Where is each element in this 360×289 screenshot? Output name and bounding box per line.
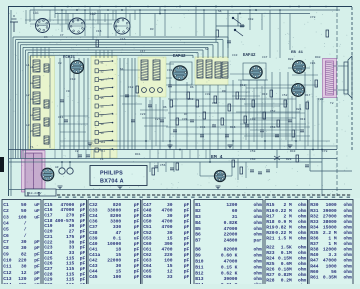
svg-text:C2: C2 [75, 150, 79, 153]
svg-text:R20: R20 [266, 230, 275, 236]
wire HT down right [321, 98, 323, 196]
svg-text:22000: 22000 [107, 258, 121, 264]
svg-text:12: 12 [21, 270, 27, 276]
svg-text:C52: C52 [270, 110, 276, 113]
svg-text:ohm: ohm [344, 219, 353, 225]
svg-text:ohm: ohm [298, 213, 307, 219]
svg-text:C8: C8 [58, 62, 62, 65]
resistor R18 [252, 100, 255, 107]
svg-text:pF: pF [134, 252, 140, 258]
capacitor C58 [86, 155, 90, 157]
table column 6 box [265, 200, 308, 289]
svg-text:pF: pF [184, 246, 190, 252]
svg-text:EAF42: EAF42 [243, 54, 256, 58]
svg-text:27000: 27000 [323, 213, 337, 219]
svg-text:C64: C64 [143, 263, 152, 269]
wire right dashed border [351, 7, 353, 150]
svg-text:S4: S4 [101, 88, 105, 91]
wire bundle right of L2 [119, 58, 121, 150]
svg-text:1200: 1200 [226, 202, 237, 208]
svg-text:R15: R15 [266, 202, 275, 208]
svg-text:R13: R13 [262, 93, 268, 96]
svg-text:pF: pF [134, 269, 140, 275]
wire verticals top zone [29, 10, 31, 22]
svg-text:ohm: ohm [298, 236, 307, 242]
svg-text:pF: pF [134, 241, 140, 247]
resistor R12 [203, 112, 206, 119]
table column 1 rows [3, 202, 40, 288]
svg-text:pF: pF [134, 202, 140, 208]
svg-text:pF: pF [134, 224, 140, 230]
svg-text:C36: C36 [89, 219, 98, 225]
svg-text:1.5 M: 1.5 M [278, 236, 292, 242]
svg-text:R35: R35 [310, 230, 319, 236]
svg-text:39000: 39000 [323, 208, 337, 214]
svg-text:R61: R61 [310, 274, 319, 280]
svg-text:C52: C52 [282, 94, 288, 97]
svg-text:C45: C45 [89, 274, 98, 280]
svg-text:C39: C39 [89, 235, 98, 241]
svg-text:R18: R18 [266, 219, 275, 225]
svg-text:270: 270 [66, 213, 75, 219]
label mains box [25, 189, 56, 196]
svg-text:a2: a2 [30, 82, 34, 85]
svg-text:R3: R3 [150, 28, 154, 31]
resistor R30 [315, 80, 318, 87]
lamp LA1 [36, 19, 50, 33]
svg-text:pF: pF [34, 239, 40, 245]
svg-text:ohm: ohm [344, 263, 353, 269]
resistor R11 [196, 100, 199, 107]
svg-text:C50: C50 [143, 219, 152, 225]
svg-text:C43: C43 [89, 263, 98, 269]
svg-text:pF: pF [34, 251, 40, 257]
wire bundle between L1 and L2 [59, 58, 61, 150]
svg-text:R26: R26 [266, 266, 275, 272]
svg-text:a5: a5 [30, 130, 34, 133]
svg-text:R25: R25 [266, 261, 275, 267]
svg-text:15000: 15000 [323, 224, 337, 230]
svg-text:4700: 4700 [162, 208, 173, 214]
svg-text:47000: 47000 [323, 258, 337, 264]
svg-text:10000: 10000 [107, 241, 121, 247]
svg-text:pF: pF [184, 263, 190, 269]
svg-text:T1: T1 [30, 146, 34, 149]
mains plug prongs [27, 192, 29, 196]
svg-text:0.62 K: 0.62 K [221, 270, 238, 276]
svg-text:ohm: ohm [254, 264, 263, 270]
svg-text:ohm: ohm [344, 202, 353, 208]
svg-text:pF: pF [184, 230, 190, 236]
svg-text:15: 15 [116, 252, 122, 258]
svg-text:pF: pF [80, 229, 86, 235]
capacitor C45 [288, 120, 292, 122]
svg-text:/: / [24, 233, 27, 239]
capacitor C60 [250, 170, 254, 172]
svg-text:ohm: ohm [298, 272, 307, 278]
capacitor C35 [200, 135, 204, 137]
svg-text:pF: pF [34, 270, 40, 276]
table column 6 rows [266, 202, 306, 289]
svg-text:pF: pF [134, 213, 140, 219]
svg-text:R16: R16 [266, 208, 275, 214]
svg-text:pF: pF [34, 276, 40, 282]
svg-text:S6: S6 [101, 106, 105, 109]
svg-text:C27: C27 [44, 266, 53, 272]
capacitor C8 [64, 120, 68, 122]
output transformer T2 winding [326, 61, 334, 95]
svg-text:R28: R28 [286, 158, 292, 161]
svg-text:ohm: ohm [298, 255, 307, 261]
svg-text:0.22 M: 0.22 M [275, 208, 292, 214]
svg-text:C32: C32 [89, 202, 98, 208]
svg-text:C7: C7 [3, 239, 9, 245]
svg-text:R19: R19 [266, 224, 275, 230]
svg-text:0.1M: 0.1M [281, 250, 292, 256]
svg-text:C23: C23 [140, 113, 146, 116]
wire upper h2 [30, 23, 112, 25]
svg-text:C44: C44 [89, 269, 98, 275]
tube U1 ECH21 [71, 61, 84, 74]
svg-text:pF: pF [184, 235, 190, 241]
svg-text:15: 15 [167, 235, 173, 241]
svg-text:ECH21: ECH21 [63, 56, 76, 60]
svg-text:C63: C63 [143, 258, 152, 264]
svg-text:0.82 M: 0.82 M [275, 224, 292, 230]
table column 2 box [43, 200, 87, 289]
svg-text:220: 220 [18, 258, 27, 264]
resistor R19 [263, 112, 266, 119]
svg-text:2.2 M: 2.2 M [323, 230, 337, 236]
svg-text:pF: pF [80, 245, 86, 251]
svg-text:S7: S7 [101, 114, 105, 117]
coil L1a [33, 60, 40, 72]
svg-text:C9: C9 [66, 90, 70, 93]
svg-text:0.60 K: 0.60 K [221, 253, 238, 259]
svg-text:pF: pF [80, 234, 86, 240]
svg-text:C8: C8 [3, 245, 9, 251]
svg-text:B11: B11 [195, 264, 204, 270]
svg-text:R33: R33 [310, 219, 319, 225]
svg-text:C18: C18 [128, 86, 134, 89]
IF transformer S1 highlight [138, 57, 166, 97]
electrolytic C1 C2 [59, 168, 65, 174]
svg-text:60: 60 [232, 208, 238, 214]
coil S1a IF primary [141, 60, 148, 80]
trimmer C25 [142, 88, 147, 93]
svg-text:R44: R44 [310, 263, 319, 269]
coil L1i trimmer [44, 136, 49, 144]
table column 4 rows [143, 202, 189, 280]
svg-text:a1: a1 [30, 66, 34, 69]
svg-text:100: 100 [113, 274, 122, 280]
resistor R29 [296, 155, 299, 162]
svg-text:L1: L1 [26, 64, 30, 67]
svg-text:B3: B3 [195, 214, 201, 220]
svg-text:C24: C24 [44, 250, 53, 256]
svg-text:C33: C33 [89, 208, 98, 214]
svg-text:100: 100 [164, 258, 173, 264]
svg-text:56: 56 [331, 269, 337, 275]
capacitor C33 [173, 130, 177, 132]
svg-text:pF: pF [184, 241, 190, 247]
svg-text:pF: pF [34, 258, 40, 264]
svg-text:0.82K: 0.82K [224, 220, 238, 226]
svg-text:pF: pF [134, 274, 140, 280]
svg-text:ohm: ohm [298, 266, 307, 272]
capacitor C48 [240, 25, 244, 27]
svg-text:ohm: ohm [344, 269, 353, 275]
resistor R10 [187, 92, 190, 99]
mains transformer T1 highlight [22, 151, 46, 193]
svg-text:0.82M: 0.82M [278, 272, 292, 278]
svg-text:820: 820 [113, 202, 122, 208]
table column 5 box [194, 200, 263, 289]
svg-text:B1: B1 [195, 202, 201, 208]
coil assembly L1 highlight (aerial coils) [29, 56, 55, 149]
coil S2a IF primary [197, 60, 203, 78]
wire verticals upper zone [25, 10, 27, 24]
svg-text:C17: C17 [44, 213, 53, 219]
svg-text:4700: 4700 [162, 246, 173, 252]
svg-text:12: 12 [167, 269, 173, 275]
svg-text:30: 30 [167, 202, 173, 208]
tube socket view ECH21 [114, 18, 130, 34]
svg-text:C22: C22 [44, 239, 53, 245]
svg-text:R9: R9 [222, 90, 226, 93]
svg-text:pF: pF [184, 219, 190, 225]
svg-text:1 M: 1 M [328, 236, 337, 242]
svg-text:pF: pF [184, 252, 190, 258]
resistor R28 [152, 168, 155, 175]
right bottom jack [276, 150, 278, 168]
svg-text:C37: C37 [89, 224, 98, 230]
resistor R1 [96, 40, 99, 47]
lamp LA2 [69, 18, 85, 34]
svg-text:12000: 12000 [323, 247, 337, 253]
svg-text:ohm: ohm [298, 208, 307, 214]
IF transformer S2 highlight [195, 57, 228, 85]
svg-text:R30: R30 [310, 202, 319, 208]
svg-text:47000: 47000 [224, 226, 238, 232]
svg-text:R34: R34 [310, 224, 319, 230]
svg-text:15: 15 [167, 263, 173, 269]
svg-text:B12: B12 [195, 270, 204, 276]
wire left border [8, 7, 10, 197]
tube U7 AZ41 rectifier [41, 168, 54, 181]
svg-text:115: 115 [66, 266, 75, 272]
table column 2 rows [44, 202, 85, 288]
capacitor C46 [300, 130, 304, 132]
svg-text:R17: R17 [266, 213, 275, 219]
svg-text:C56: C56 [160, 164, 166, 167]
svg-text:R38: R38 [310, 247, 319, 253]
tube U5 EL41 [292, 84, 305, 97]
svg-text:R27: R27 [266, 272, 275, 278]
svg-text:ohm: ohm [298, 224, 307, 230]
svg-text:L3: L3 [26, 124, 30, 127]
svg-text:ohm: ohm [254, 247, 263, 253]
svg-text:R16: R16 [230, 126, 236, 129]
svg-text:30: 30 [69, 239, 75, 245]
svg-text:B5: B5 [195, 226, 201, 232]
svg-text:C10: C10 [3, 258, 12, 264]
svg-text:ohm: ohm [344, 274, 353, 280]
svg-text:pF: pF [184, 208, 190, 214]
coil S2b IF secondary [206, 60, 212, 78]
capacitor C43 [260, 130, 264, 132]
table column 4 box [142, 200, 191, 289]
svg-text:ohm: ohm [254, 232, 263, 238]
svg-text:R41: R41 [135, 153, 141, 156]
svg-text:C38: C38 [205, 93, 211, 96]
svg-text:EAF42: EAF42 [173, 55, 186, 59]
svg-text:27: 27 [69, 229, 75, 235]
svg-text:47000: 47000 [61, 202, 75, 208]
svg-text:C21: C21 [44, 234, 53, 240]
svg-text:C18: C18 [44, 218, 53, 224]
trimmer C26 [150, 88, 155, 93]
svg-text:pF: pF [184, 274, 190, 280]
svg-text:3300: 3300 [110, 219, 121, 225]
svg-text:50: 50 [21, 202, 27, 208]
wire box around U3 [243, 63, 266, 80]
svg-text:C23: C23 [44, 245, 53, 251]
wire heater bus 1 [8, 158, 337, 160]
svg-text:pF: pF [80, 266, 86, 272]
svg-text:/: / [24, 227, 27, 233]
capacitor C7 [60, 100, 64, 102]
svg-text:30: 30 [21, 264, 27, 270]
svg-text:C15: C15 [44, 202, 53, 208]
coil S2d [222, 62, 228, 78]
svg-text:C39: C39 [182, 118, 188, 121]
svg-text:S9: S9 [101, 132, 105, 135]
svg-text:0.35M: 0.35M [323, 274, 337, 280]
svg-text:R60: R60 [310, 269, 319, 275]
EM4 wiring [199, 162, 201, 176]
svg-text:115: 115 [66, 277, 75, 283]
svg-text:C9: C9 [3, 251, 9, 257]
svg-text:22000: 22000 [224, 232, 238, 238]
svg-text:30: 30 [21, 245, 27, 251]
svg-text:1 M: 1 M [328, 241, 337, 247]
svg-text:pF: pF [184, 269, 190, 275]
resistor R21 [277, 120, 280, 127]
svg-text:C20: C20 [44, 229, 53, 235]
svg-text:C49: C49 [143, 213, 152, 219]
wire bundle left verticals [12, 150, 14, 159]
svg-text:30: 30 [167, 213, 173, 219]
svg-text:C16: C16 [120, 38, 126, 41]
wire divider [8, 149, 337, 151]
resistor R24 [306, 102, 309, 109]
svg-text:ohm: ohm [344, 258, 353, 264]
svg-text:0.18M: 0.18M [278, 266, 292, 272]
svg-text:C66: C66 [143, 274, 152, 280]
resistor R13 [214, 96, 217, 103]
svg-text:B9: B9 [195, 253, 201, 259]
svg-text:R43: R43 [290, 150, 296, 153]
wire T2 to speaker 2 [334, 89, 349, 91]
svg-text:30: 30 [69, 223, 75, 229]
svg-text:/: / [24, 221, 27, 227]
svg-text:a4: a4 [30, 114, 34, 117]
svg-text:C25: C25 [44, 255, 53, 261]
antenna symbol [13, 22, 15, 32]
svg-text:pF: pF [184, 213, 190, 219]
coil assembly L2 highlight (oscillator coils) [91, 56, 117, 158]
svg-text:50: 50 [21, 208, 27, 214]
svg-text:33: 33 [69, 245, 75, 251]
svg-text:uF: uF [134, 235, 140, 241]
svg-text:par: par [254, 239, 263, 244]
svg-text:uF: uF [34, 214, 40, 220]
svg-text:C1: C1 [3, 202, 9, 208]
svg-text:S11: S11 [101, 150, 106, 153]
svg-text:B6: B6 [195, 232, 201, 238]
wire left border inner [10, 10, 12, 196]
wire box around U2 [170, 62, 192, 85]
svg-text:400-575: 400-575 [55, 218, 75, 224]
extra mid wires [230, 73, 260, 75]
resistor R42 [176, 163, 179, 170]
svg-text:120: 120 [18, 276, 27, 282]
svg-text:C41: C41 [89, 246, 98, 252]
scan speckle [9, 7, 352, 196]
svg-text:C29: C29 [44, 277, 53, 283]
svg-text:82: 82 [21, 251, 27, 257]
svg-text:ohm: ohm [344, 247, 353, 253]
svg-text:330: 330 [113, 224, 122, 230]
footer marks under schematic [58, 197, 61, 198]
svg-text:ohm: ohm [254, 253, 263, 259]
resistor R26 [232, 160, 235, 167]
coil L1c [33, 92, 40, 104]
svg-text:C47: C47 [262, 56, 268, 59]
svg-text:R6: R6 [190, 86, 194, 89]
svg-text:AZ: AZ [55, 166, 59, 169]
parts list table [0, 198, 360, 284]
svg-text:pF: pF [134, 219, 140, 225]
svg-text:1000: 1000 [326, 202, 337, 208]
tube U6 EM4 tuning eye [214, 170, 225, 181]
svg-text:L2: L2 [26, 94, 30, 97]
capacitor C61 [258, 172, 262, 174]
svg-text:C52: C52 [143, 230, 152, 236]
svg-text:C13: C13 [3, 276, 12, 282]
svg-text:S2: S2 [205, 48, 209, 51]
svg-text:R40: R40 [315, 56, 321, 59]
wire top bus [8, 6, 352, 8]
svg-text:0.15M: 0.15M [278, 255, 292, 261]
svg-text:3.3: 3.3 [328, 252, 337, 258]
svg-text:0.9 M: 0.9 M [278, 219, 292, 225]
table column 7 rows [310, 202, 352, 280]
tube U2 EAF42 [173, 66, 187, 80]
wire bus2 [55, 13, 310, 15]
coil L1d [33, 108, 40, 120]
dashed rule above parts list [57, 194, 352, 196]
svg-text:B2: B2 [195, 208, 201, 214]
svg-text:C32: C32 [167, 69, 173, 72]
svg-text:47000: 47000 [61, 207, 75, 213]
svg-text:31: 31 [232, 214, 238, 220]
svg-text:175: 175 [66, 234, 75, 240]
svg-text:ohm: ohm [344, 213, 353, 219]
svg-text:C2: C2 [3, 208, 9, 214]
black edge mark [0, 157, 4, 172]
